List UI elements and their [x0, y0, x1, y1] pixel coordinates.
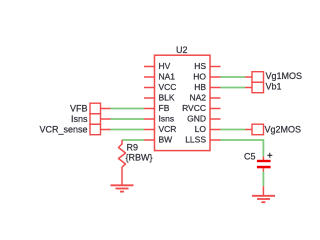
wire Isns net (green) [111, 118, 145, 120]
wire BW net (green) [122, 139, 144, 141]
pin stub BLK (pin left 4) [144, 97, 155, 99]
svg-text:LO: LO [195, 124, 207, 134]
svg-text:HB: HB [194, 82, 206, 92]
svg-text:VCC: VCC [159, 82, 177, 92]
pin stub GND (pin right 6) [210, 118, 221, 120]
svg-text:Isns: Isns [71, 114, 88, 124]
wire C5 top lead (red) [262, 157, 264, 161]
svg-text:FB: FB [159, 103, 170, 113]
svg-text:VCR: VCR [159, 124, 177, 134]
svg-text:RVCC: RVCC [182, 103, 206, 113]
ground symbol under R9 [111, 185, 134, 191]
svg-text:U2: U2 [176, 45, 188, 55]
svg-text:VCR_sense: VCR_sense [39, 125, 87, 135]
pin stub LO (pin right 7) [210, 129, 221, 131]
svg-text:Vg2MOS: Vg2MOS [265, 125, 302, 135]
port Vg2MOS box [252, 124, 264, 135]
wire HB net (green) [221, 87, 246, 89]
pin stub RVCC (pin right 5) [210, 108, 221, 110]
port Isns box [90, 114, 101, 125]
port Vb1 box [252, 82, 264, 93]
pin stub HB (pin right 3) [210, 87, 221, 89]
svg-text:LLSS: LLSS [185, 134, 206, 144]
wire C5 to ground (green) [262, 172, 264, 187]
wire LO port stub (red) [245, 129, 252, 131]
svg-text:Isns: Isns [159, 113, 175, 123]
wire LLSS net horizontal (green) [221, 139, 264, 141]
capacitor C5 bottom plate [257, 166, 271, 169]
wire C5 bottom lead (red) [262, 168, 264, 171]
pin stub LLSS (pin right 8) [210, 139, 221, 141]
pin stub HO (pin right 2) [210, 76, 221, 78]
pin stub FB (pin left 5) [144, 108, 155, 110]
wire ground lead (red) [262, 186, 264, 195]
svg-text:HS: HS [194, 61, 206, 71]
pin stub BW (pin left 8) [144, 139, 155, 141]
svg-text:NA2: NA2 [189, 92, 206, 102]
svg-text:Vb1: Vb1 [266, 82, 282, 92]
ground symbol under C5 [252, 196, 275, 202]
pin stub VCR (pin left 7) [144, 129, 155, 131]
pin stub HV (pin left 1) [144, 66, 155, 68]
resistor R9 zigzag [119, 140, 126, 167]
wire LO net (green) [221, 129, 246, 131]
wire HO net (green) [221, 76, 246, 78]
port VFB box [90, 103, 101, 114]
wire VFB port stub (red) [101, 108, 111, 110]
svg-text:BLK: BLK [159, 92, 175, 102]
port Vg1MOS box [252, 72, 264, 83]
wire Isns port stub (red) [101, 118, 111, 120]
wire R9 to ground (red lead) [121, 167, 123, 185]
svg-text:HO: HO [193, 71, 206, 81]
svg-text:{RBW}: {RBW} [126, 153, 153, 163]
pin stub Isns (pin left 6) [144, 118, 155, 120]
pin stub VCC (pin left 3) [144, 87, 155, 89]
svg-text:C5: C5 [244, 152, 256, 162]
capacitor C5 top plate [257, 160, 271, 162]
pin stub HS (pin right 1) [210, 66, 221, 68]
IC U2 body [155, 55, 211, 150]
svg-text:NA1: NA1 [159, 71, 176, 81]
wire HB port stub (red) [245, 87, 252, 89]
svg-text:HV: HV [159, 61, 171, 71]
port VCR_sense box [90, 124, 101, 135]
pin stub NA1 (pin left 2) [144, 76, 155, 78]
wire LLSS net vertical to C5 (green) [262, 139, 264, 156]
svg-text:Vg1MOS: Vg1MOS [266, 71, 303, 81]
svg-text:VFB: VFB [70, 104, 88, 114]
wire VCR_sense port stub (red) [101, 129, 111, 131]
svg-text:R9: R9 [127, 143, 139, 153]
wire HO port stub (red) [245, 76, 252, 78]
capacitor C5 polarity plus [267, 153, 272, 158]
svg-text:GND: GND [187, 113, 206, 123]
wire VCR_sense net (green) [111, 129, 145, 131]
wire VFB net (green) [111, 108, 145, 110]
pin stub NA2 (pin right 4) [210, 97, 221, 99]
svg-text:BW: BW [159, 134, 173, 144]
